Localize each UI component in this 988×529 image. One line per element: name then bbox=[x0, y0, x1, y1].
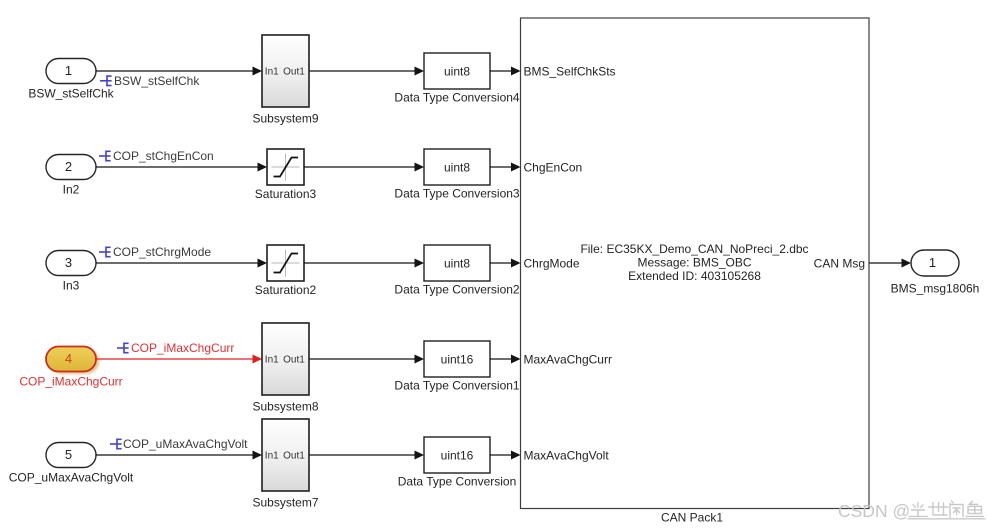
wire 3 to Saturation2 bbox=[96, 259, 267, 268]
svg-text:Data Type Conversion3: Data Type Conversion3 bbox=[394, 187, 520, 201]
svg-text:COP_iMaxChgCurr: COP_iMaxChgCurr bbox=[19, 375, 122, 389]
svg-text:ChrgMode: ChrgMode bbox=[524, 256, 580, 270]
svg-text:Subsystem8: Subsystem8 bbox=[252, 400, 318, 414]
svg-text:Saturation3: Saturation3 bbox=[255, 187, 317, 201]
wire 5 to Subsystem7 bbox=[96, 451, 262, 460]
CAN Pack1 description text bbox=[580, 242, 808, 283]
signal badge row 2 bbox=[99, 151, 111, 162]
svg-text:In1: In1 bbox=[265, 67, 279, 78]
signal badge row 5 bbox=[110, 439, 122, 450]
svg-text:Saturation2: Saturation2 bbox=[255, 283, 317, 297]
wire CAN Pack1 to output port bbox=[869, 259, 911, 268]
svg-text:File: EC35KX_Demo_CAN_NoPreci_: File: EC35KX_Demo_CAN_NoPreci_2.dbc bbox=[580, 242, 808, 256]
wire Data Type Conversion2 to CAN Pack1 bbox=[490, 259, 521, 268]
data type conversion block Data Type Conversion2 bbox=[424, 245, 490, 281]
svg-text:CAN Pack1: CAN Pack1 bbox=[661, 511, 723, 525]
svg-text:In2: In2 bbox=[63, 183, 80, 197]
svg-text:Out1: Out1 bbox=[283, 355, 305, 366]
svg-text:In1: In1 bbox=[265, 355, 279, 366]
svg-text:Data Type Conversion1: Data Type Conversion1 bbox=[394, 379, 520, 393]
svg-text:uint8: uint8 bbox=[444, 64, 470, 78]
watermark chinese characters bbox=[908, 501, 985, 519]
input port 5 bbox=[46, 443, 96, 468]
data type conversion block Data Type Conversion4 bbox=[424, 53, 490, 89]
output port 1 bbox=[911, 250, 959, 276]
wire Data Type Conversion1 to CAN Pack1 bbox=[490, 355, 521, 364]
svg-text:COP_stChgEnCon: COP_stChgEnCon bbox=[113, 149, 214, 163]
input port 1 bbox=[46, 59, 96, 84]
svg-text:In1: In1 bbox=[265, 451, 279, 462]
saturation block Saturation2 bbox=[267, 245, 304, 281]
svg-text:1: 1 bbox=[929, 255, 936, 270]
svg-text:Data Type Conversion4: Data Type Conversion4 bbox=[394, 91, 520, 105]
svg-text:CSDN @: CSDN @ bbox=[838, 501, 910, 521]
svg-text:In3: In3 bbox=[63, 279, 80, 293]
CAN Pack block CAN Pack1 bbox=[521, 18, 870, 509]
svg-text:3: 3 bbox=[65, 255, 72, 270]
saturation block Saturation3 bbox=[267, 149, 304, 185]
svg-text:uint8: uint8 bbox=[444, 160, 470, 174]
wire Saturation2 to Data Type Conversion2 bbox=[304, 259, 424, 268]
wire 1 to Subsystem9 bbox=[96, 67, 262, 76]
wire 4 to Subsystem8 bbox=[96, 355, 262, 364]
input port 4 bbox=[46, 347, 99, 375]
signal badge row 4 bbox=[117, 343, 129, 354]
data type conversion block Data Type Conversion bbox=[424, 437, 490, 473]
svg-text:CAN Msg: CAN Msg bbox=[814, 257, 865, 271]
svg-text:Subsystem7: Subsystem7 bbox=[252, 496, 318, 510]
wire Subsystem9 to Data Type Conversion4 bbox=[309, 67, 424, 76]
svg-text:COP_stChrgMode: COP_stChrgMode bbox=[113, 245, 211, 259]
subsystem Subsystem8 bbox=[262, 323, 309, 395]
wire 2 to Saturation3 bbox=[96, 163, 267, 172]
svg-text:Subsystem9: Subsystem9 bbox=[252, 112, 318, 126]
input port 3 bbox=[46, 251, 96, 276]
svg-text:2: 2 bbox=[65, 159, 72, 174]
svg-text:BMS_SelfChkSts: BMS_SelfChkSts bbox=[524, 64, 616, 78]
svg-text:Out1: Out1 bbox=[283, 451, 305, 462]
svg-text:4: 4 bbox=[65, 351, 72, 366]
signal badge row 1 bbox=[100, 75, 112, 86]
svg-text:BMS_msg1806h: BMS_msg1806h bbox=[891, 282, 980, 296]
svg-text:BSW_stSelfChk: BSW_stSelfChk bbox=[114, 74, 200, 88]
signal badge row 3 bbox=[99, 247, 111, 258]
subsystem Subsystem9 bbox=[262, 35, 309, 107]
svg-text:COP_iMaxChgCurr: COP_iMaxChgCurr bbox=[131, 341, 234, 355]
wire Data Type Conversion to CAN Pack1 bbox=[490, 451, 521, 460]
data type conversion block Data Type Conversion1 bbox=[424, 341, 490, 377]
svg-text:COP_uMaxAvaChgVolt: COP_uMaxAvaChgVolt bbox=[9, 471, 134, 485]
wire Saturation3 to Data Type Conversion3 bbox=[304, 163, 424, 172]
svg-text:uint8: uint8 bbox=[444, 256, 470, 270]
wire Data Type Conversion4 to CAN Pack1 bbox=[490, 67, 521, 76]
svg-text:1: 1 bbox=[65, 63, 72, 78]
svg-text:Out1: Out1 bbox=[283, 67, 305, 78]
svg-text:BSW_stSelfChk: BSW_stSelfChk bbox=[28, 87, 114, 101]
svg-text:5: 5 bbox=[65, 447, 72, 462]
svg-text:COP_uMaxAvaChgVolt: COP_uMaxAvaChgVolt bbox=[123, 437, 248, 451]
data type conversion block Data Type Conversion3 bbox=[424, 149, 490, 185]
svg-text:Message: BMS_OBC: Message: BMS_OBC bbox=[637, 256, 751, 270]
subsystem Subsystem7 bbox=[262, 419, 309, 491]
svg-text:uint16: uint16 bbox=[441, 448, 474, 462]
input port 2 bbox=[46, 155, 96, 180]
svg-text:Data Type Conversion: Data Type Conversion bbox=[398, 475, 517, 489]
svg-text:Data Type Conversion2: Data Type Conversion2 bbox=[394, 283, 520, 297]
svg-text:uint16: uint16 bbox=[441, 352, 474, 366]
wire Data Type Conversion3 to CAN Pack1 bbox=[490, 163, 521, 172]
svg-text:ChgEnCon: ChgEnCon bbox=[524, 160, 583, 174]
svg-text:MaxAvaChgVolt: MaxAvaChgVolt bbox=[524, 448, 610, 462]
svg-text:MaxAvaChgCurr: MaxAvaChgCurr bbox=[524, 352, 612, 366]
svg-text:Extended ID: 403105268: Extended ID: 403105268 bbox=[628, 269, 761, 283]
wire Subsystem8 to Data Type Conversion1 bbox=[309, 355, 424, 364]
wire Subsystem7 to Data Type Conversion bbox=[309, 451, 424, 460]
